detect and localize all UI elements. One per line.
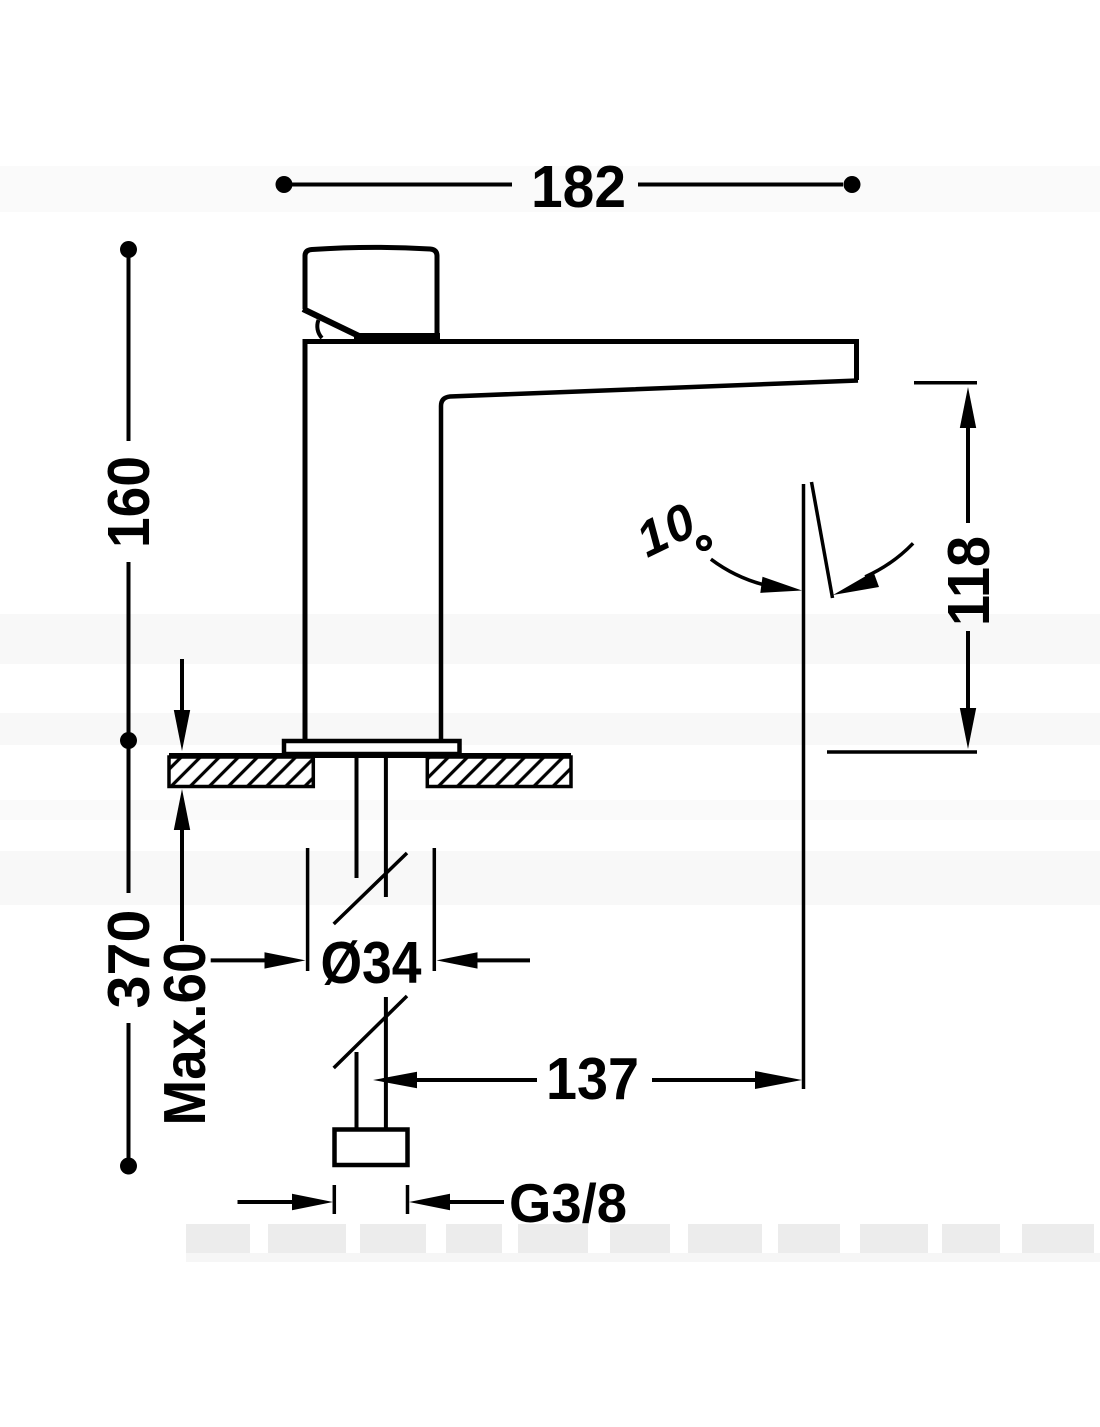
svg-text:182: 182 xyxy=(531,154,626,220)
svg-text:118: 118 xyxy=(936,536,1002,626)
svg-text:137: 137 xyxy=(546,1046,639,1112)
svg-text:Max.60: Max.60 xyxy=(152,943,218,1126)
svg-text:Ø34: Ø34 xyxy=(321,930,422,996)
svg-text:160: 160 xyxy=(96,456,162,548)
svg-text:G3/8: G3/8 xyxy=(509,1172,627,1234)
